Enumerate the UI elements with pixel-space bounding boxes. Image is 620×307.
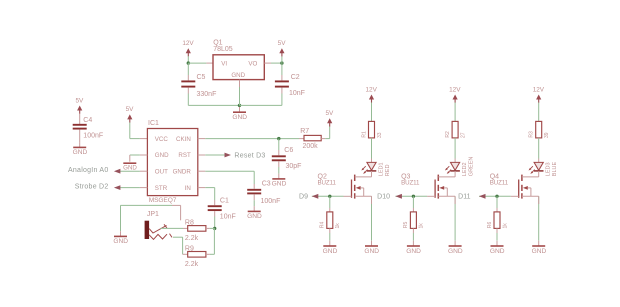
wire IN to C1 [205,187,214,189]
resistor R1 [369,121,375,137]
svg-text:C6: C6 [284,147,293,154]
svg-text:LED3: LED3 [546,162,552,176]
svg-text:OUT: OUT [155,169,168,176]
svg-text:VI: VI [221,61,227,68]
wire jack ring to R9 [173,236,183,238]
wire Q2 source to ground [371,196,373,240]
svg-text:C4: C4 [83,117,92,124]
capacitor C2 [281,88,283,94]
wire C1 to input node [214,217,216,229]
LED emission arrows [363,166,366,169]
svg-text:C2: C2 [291,74,300,81]
pin IC1 GND stub [140,154,148,156]
wire node down to C6 [278,139,280,150]
ground (C6) [278,174,280,179]
ground (C4) [79,142,81,147]
node D11 label arrow [479,194,486,199]
svg-text:GND: GND [532,248,547,255]
LED LED1 RED [371,159,373,163]
svg-text:12V: 12V [533,86,545,93]
svg-text:200k: 200k [303,143,319,150]
ground (IC1 GND pin) [129,155,131,162]
wire gate net D9 [312,195,344,197]
pin JP1 sleeve [172,204,181,206]
supply 5V (R7) [327,118,332,123]
wire jack sleeve to ground [121,204,173,206]
svg-text:VO: VO [248,61,257,68]
wire R2 to LED2 [454,138,456,159]
svg-text:BUZ11: BUZ11 [490,180,509,187]
svg-text:R4: R4 [320,221,326,228]
svg-text:27: 27 [460,132,466,138]
svg-text:5V: 5V [75,97,84,104]
LED emission arrows [446,166,449,169]
wire LED3 cathode to drain [538,171,540,177]
supply 12V (stage 1) [369,95,374,100]
svg-text:D10: D10 [377,193,390,200]
wire R5 to ground [412,233,414,241]
wire node down to C5 [187,63,189,75]
wire gate net D11 [479,195,511,197]
svg-text:5V: 5V [278,40,287,47]
svg-text:330nF: 330nF [197,91,217,98]
wire R6 to ground [496,233,498,241]
svg-text:MSGEQ7: MSGEQ7 [149,197,177,204]
svg-text:BUZ11: BUZ11 [401,180,420,187]
pin IC1 CKIN stub [198,138,206,140]
node gate junction (stage 2) [412,195,415,198]
wire R7 to 5V [325,138,330,140]
svg-text:R1: R1 [361,131,367,138]
capacitor C1 [214,200,216,205]
svg-text:GNDR: GNDR [173,169,192,176]
node AnalogIn A0 label arrow [114,169,121,174]
ground (R4) [329,241,331,246]
pin IC1 OUT stub [140,170,148,172]
wire junction to R6 [496,196,498,208]
svg-text:VCC: VCC [155,136,169,143]
wire 12V to R1 [371,103,373,122]
svg-text:100nF: 100nF [83,133,103,140]
svg-text:GND: GND [364,248,379,255]
svg-text:GND: GND [73,149,88,156]
wire GNDR to C3 [205,170,254,172]
wire C5 to bottom rail [187,94,189,106]
pin IC1 GNDR stub [198,170,206,172]
capacitor C4 [79,114,81,125]
svg-text:12V: 12V [182,40,194,47]
resistor R7 [299,138,304,140]
svg-text:C5: C5 [197,74,206,81]
capacitor C3 [253,184,255,189]
pin Q1 VI stub [206,62,213,64]
wire R3 to LED3 [538,138,540,159]
wire gate net D10 [395,195,427,197]
node gate junction (stage 3) [495,195,498,198]
node D10 label arrow [395,194,402,199]
svg-text:10nF: 10nF [289,90,305,97]
svg-text:GND: GND [406,248,421,255]
capacitor C5 [187,75,189,80]
wire 12V to R2 [454,103,456,122]
svg-text:IC1: IC1 [148,120,159,127]
wire Q4 source to ground [538,196,540,240]
svg-text:LED2: LED2 [462,162,468,176]
pin IC1 RST stub [198,154,206,156]
LED LED3 BLUE [538,159,540,163]
ground (C3) [253,206,255,211]
supply 12V (stage 3) [536,95,541,100]
svg-text:1k: 1k [335,223,341,229]
pin Q1 GND stub down [239,80,241,87]
node Strobe D2 label arrow [114,185,121,190]
pin Q1 VO stub [264,62,271,64]
svg-text:R5: R5 [403,221,409,228]
node regulator output junction [280,61,283,64]
resistor R5 [412,208,414,212]
svg-text:GND: GND [448,248,463,255]
wire R4 to ground [329,233,331,241]
pin IC1 IN stub [198,187,206,189]
wire LED1 cathode to drain [371,171,373,177]
wire R8 to input node [210,227,215,229]
svg-text:GND: GND [323,248,338,255]
wire RST (Reset D3) [205,154,224,156]
wire 5V node down to C2 [281,63,283,75]
wire R1 to LED1 [371,138,373,159]
ground (Q4 source) [538,241,540,246]
wire 12V arrow to node [187,56,189,63]
svg-text:Reset D3: Reset D3 [234,152,265,159]
svg-text:100nF: 100nF [261,198,281,205]
svg-text:GND: GND [232,114,247,121]
svg-text:GND: GND [490,248,505,255]
ground (R6) [496,241,498,246]
wire 12V to R3 [538,103,540,122]
node CKIN junction [277,137,280,140]
node D9 label arrow [312,194,319,199]
LED LED2 GREEN [454,159,456,163]
LED emission arrows [530,166,533,169]
svg-text:R9: R9 [185,246,194,253]
wire Q3 source to ground [454,196,456,240]
pin Q4 gate stub [511,195,519,197]
ground (regulator) [239,107,241,112]
wire IC1 GND to ground [130,154,140,156]
svg-text:CKIN: CKIN [176,136,191,143]
svg-text:BUZ11: BUZ11 [318,180,337,187]
wire junction to R4 [329,196,331,208]
resistor R4 [329,208,331,212]
resistor R8 [183,227,188,229]
wire node up to 5V arrow [281,56,283,63]
jack ring contact [149,234,167,239]
svg-text:AnalogIn A0: AnalogIn A0 [68,167,109,174]
svg-text:78L05: 78L05 [213,46,233,53]
wire rail to C2 [240,104,282,106]
pin Q2 gate stub [344,195,352,197]
svg-text:GND: GND [123,165,137,172]
supply 5V (IC1 VCC) [127,114,132,119]
svg-text:1k: 1k [502,223,508,229]
svg-text:5V: 5V [126,106,135,113]
svg-text:1k: 1k [419,223,425,229]
regulator Q1 78L05 body [213,55,264,80]
svg-text:R3: R3 [529,131,535,138]
wire C3 to ground [253,200,255,206]
svg-text:STR: STR [155,185,168,192]
svg-text:GND: GND [155,152,169,159]
wire node to Q1 VI pin [188,62,206,64]
svg-text:D9: D9 [299,193,308,200]
node Reset D3 label arrow [225,153,232,158]
wire C6 to ground [278,167,280,174]
pin IC1 VCC stub [140,138,148,140]
resistor R3 [536,121,542,137]
svg-text:30pF: 30pF [286,163,302,170]
svg-text:GND: GND [272,181,287,188]
wire STR (Strobe D2) [120,187,140,189]
node regulator input junction [187,61,190,64]
pin Q3 gate stub [427,195,435,197]
svg-text:2.2k: 2.2k [185,235,199,242]
svg-text:GND: GND [231,72,245,79]
wire VO to 5V node [271,62,282,64]
wire Q1 GND to rail [239,87,241,105]
svg-text:BLUE: BLUE [552,162,558,177]
supply 12V (stage 2) [453,95,458,100]
ground (Q2 source) [371,241,373,246]
ground (Q3 source) [454,241,456,246]
node audio input junction [213,227,216,230]
svg-text:GND: GND [247,213,262,220]
resistor R6 [496,208,498,212]
wire jack tip to R8 [161,227,184,229]
node bottom rail junction [238,104,241,107]
svg-text:39: 39 [544,132,550,138]
supply 5V (regulator output) [279,48,284,53]
pin IC1 STR stub [140,187,148,189]
ground (JP1) [120,231,122,236]
wire 5V to VCC [129,122,131,138]
resistor R2 [452,121,458,137]
svg-text:2.2k: 2.2k [185,261,199,268]
svg-text:D11: D11 [458,193,470,200]
svg-text:GREEN: GREEN [469,157,475,177]
svg-text:12V: 12V [449,86,461,93]
svg-text:RST: RST [178,152,191,159]
svg-text:RED: RED [385,165,391,177]
capacitor C6 [278,150,280,155]
svg-text:C3: C3 [262,181,271,188]
ground (R5) [412,241,414,246]
svg-text:10nF: 10nF [220,213,236,220]
svg-text:JP1: JP1 [147,211,159,218]
svg-text:GND: GND [113,238,128,245]
supply 5V (C4) [77,106,82,111]
node gate junction (stage 1) [328,195,331,198]
svg-text:R8: R8 [185,219,194,226]
svg-text:R6: R6 [487,221,493,228]
wire OUT (AnalogIn A0) [120,170,140,172]
svg-text:5V: 5V [325,110,334,117]
ic MSGEQ7 IC1 body [147,129,197,196]
wire R9 to input node [210,253,215,255]
resistor R9 [183,253,188,255]
svg-text:12V: 12V [366,86,378,93]
wire LED2 cathode to drain [454,171,456,177]
svg-text:IN: IN [185,185,191,192]
jack tip contact [149,225,166,233]
svg-text:LED1: LED1 [378,162,384,176]
wire junction to R5 [412,196,414,208]
svg-text:33: 33 [377,132,383,138]
wire CKIN to oscillator node [205,138,299,140]
svg-text:R7: R7 [300,128,309,135]
svg-text:Strobe D2: Strobe D2 [75,184,109,191]
svg-text:C1: C1 [220,197,229,204]
svg-text:R2: R2 [445,131,451,138]
supply 12V (regulator input) [186,48,191,53]
